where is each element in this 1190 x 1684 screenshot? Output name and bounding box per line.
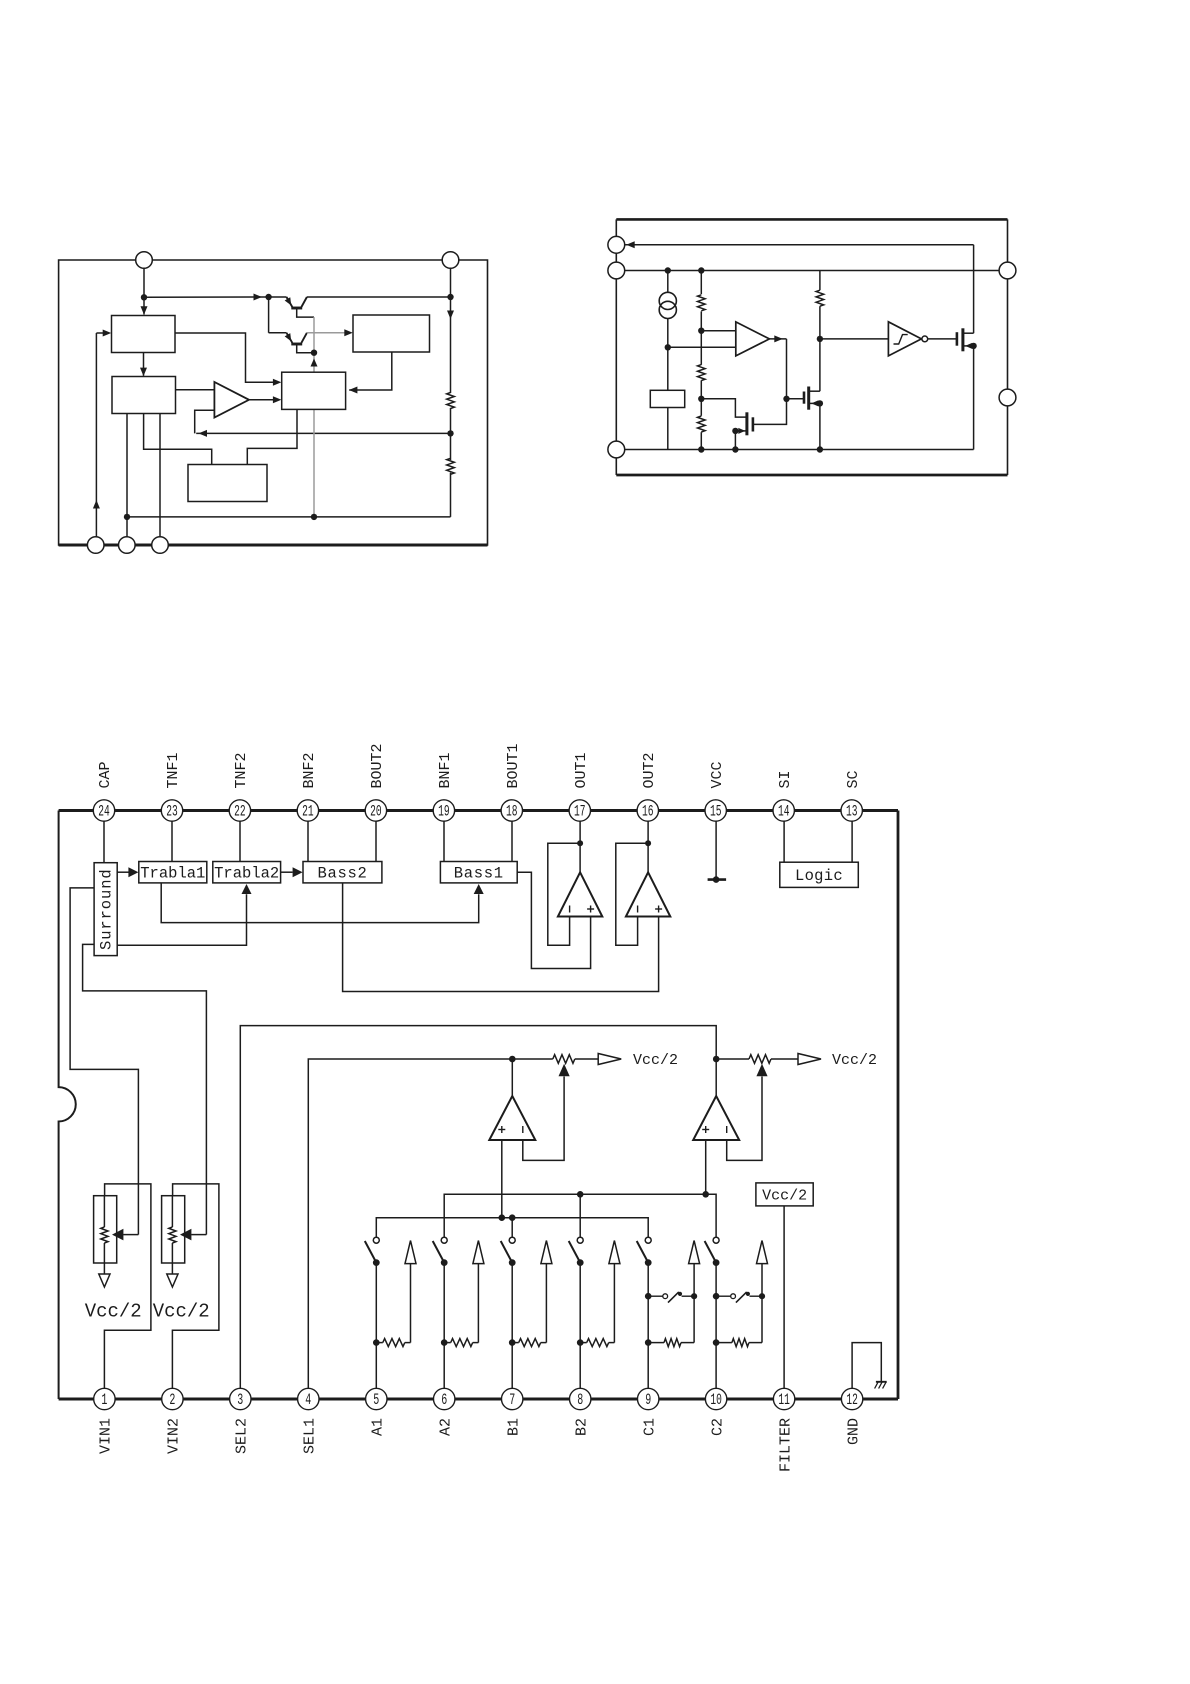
MOSFET M3 — [956, 332, 959, 346]
open arrow of cell — [757, 1241, 768, 1264]
pin K3 of diagram 2 — [608, 441, 625, 458]
svg-text:17: 17 — [574, 803, 586, 821]
pin P1 of diagram 1 — [136, 252, 153, 269]
Trabla1 block — [139, 862, 207, 883]
svg-text:Vcc/2: Vcc/2 — [85, 1301, 142, 1323]
node J1 junction — [665, 267, 671, 273]
node at sub-switch — [713, 1293, 720, 1300]
svg-text:Vcc/2: Vcc/2 — [832, 1052, 877, 1069]
wire Bass1 output to op-amp U4 non-inverting input — [517, 872, 590, 968]
wire block B2 leg2 jog to block B5 top — [144, 414, 212, 465]
svg-text:C1: C1 — [641, 1418, 658, 1436]
op-amp U7 — [693, 1096, 739, 1140]
wire VR2 wiper to Surround input 2 — [83, 944, 207, 1234]
series resistor of cell at pin x=376.3 — [376, 1342, 383, 1344]
svg-text:BOUT2: BOUT2 — [369, 743, 386, 788]
switch S6 blade — [705, 1241, 716, 1262]
chassis ground symbol — [876, 1381, 887, 1383]
wire pin 12 GND to chassis ground — [852, 1343, 881, 1391]
node N3 junction — [447, 294, 453, 300]
svg-text:B1: B1 — [505, 1418, 522, 1436]
svg-text:21: 21 — [302, 803, 314, 821]
svg-text:1: 1 — [101, 1391, 107, 1409]
Surround block — [94, 863, 117, 956]
wire switch S1 to pin — [375, 1263, 377, 1391]
feedback wire op-amp U5 — [616, 843, 648, 945]
wire Surround output to Trabla2 input arrow — [117, 894, 246, 945]
pin 14 circle — [773, 800, 794, 821]
pin 20 circle — [365, 800, 386, 821]
MOSFET M2 — [810, 390, 820, 392]
wire node J4 to op-amp U2 upper input — [701, 330, 736, 332]
node bus B at switch S3 — [509, 1214, 516, 1221]
wire block B1 output right and down into block B4 upper-left input — [175, 333, 278, 382]
switch S3 contact — [509, 1237, 515, 1243]
node at op-amp U6 output — [509, 1056, 516, 1063]
svg-text:A1: A1 — [370, 1418, 387, 1436]
node J4 junction at op-amp U2 non-inverting input — [698, 328, 704, 334]
open arrow of cell — [609, 1241, 620, 1264]
wire node down to op-amp U6 apex — [511, 1059, 513, 1096]
switch S2 contact — [441, 1237, 447, 1243]
pin 16 circle — [637, 800, 658, 821]
wire block B2 output to op-amp U1 input — [176, 389, 215, 391]
svg-text:24: 24 — [98, 803, 110, 821]
wire op-amp U2 output to node J7 — [769, 338, 786, 340]
op-amp U6 — [489, 1096, 535, 1140]
node J11 junction at MOSFET M2 source — [817, 400, 823, 406]
svg-text:9: 9 — [645, 1391, 651, 1409]
svg-text:BNF2: BNF2 — [301, 752, 318, 788]
feedback arrow op-amp U6 — [559, 1064, 570, 1077]
wire pin 18 to Bass1 — [511, 819, 513, 862]
pin 1 circle — [94, 1388, 115, 1409]
pin 15 circle — [705, 800, 726, 821]
wire R2 down to bottom rail — [450, 473, 452, 517]
svg-text:OUT2: OUT2 — [641, 752, 658, 788]
node N4 junction — [311, 350, 317, 356]
node on pin wire at resistor — [645, 1339, 652, 1346]
node J2 junction — [698, 267, 704, 273]
resistor R6 — [819, 271, 821, 291]
svg-text:4: 4 — [305, 1391, 311, 1409]
output resistor of op-amp U7 — [716, 1058, 749, 1060]
bypass wire pin 1 to VR1 top — [104, 1184, 150, 1391]
vertical wire to open arrow — [761, 1296, 763, 1342]
wire block B1 down to block B2 — [143, 353, 145, 376]
switch S1 pole node — [373, 1259, 380, 1266]
wire pin 21 to Bass2 — [307, 819, 309, 862]
pin 9 circle — [638, 1388, 659, 1409]
Vcc/2 reference arrow under VR1 — [99, 1274, 110, 1287]
wire block B4 bottom to block B5 top — [247, 409, 297, 464]
svg-text:Trabla1: Trabla1 — [140, 865, 205, 883]
node N6 junction of gray rail on bottom rail — [311, 514, 317, 520]
wire node N1 down into block B1 — [143, 297, 145, 314]
switch S6 pole node — [713, 1259, 720, 1266]
svg-text:18: 18 — [506, 803, 518, 821]
wire MOSFET M2 source to bottom rail node J12 — [819, 403, 821, 449]
switch S1 blade — [365, 1241, 376, 1262]
pin 12 circle — [841, 1388, 862, 1409]
bus A wire (A2-B2-C2) — [444, 1194, 716, 1237]
wire switch S3 to pin — [511, 1263, 513, 1391]
svg-text:SC: SC — [845, 770, 862, 788]
wire pin 3 SEL2 up and over to op-amp U7 output node — [240, 1026, 716, 1391]
pin 21 circle — [297, 800, 318, 821]
open arrow of cell — [541, 1241, 552, 1264]
block B3 — [353, 315, 430, 352]
svg-text:B2: B2 — [573, 1418, 590, 1436]
svg-text:FILTER: FILTER — [777, 1418, 794, 1472]
switch S4 blade — [569, 1241, 580, 1262]
node J3 junction at op-amp U2 inverting input — [665, 344, 671, 350]
vertical wire to open arrow — [693, 1296, 695, 1342]
wire Q2 base to node N4 — [297, 344, 314, 353]
svg-text:BNF1: BNF1 — [437, 752, 454, 788]
node at sub-switch output — [691, 1293, 697, 1299]
Bass2 block — [303, 862, 382, 883]
Vcc/2 reference arrow under VR2 — [167, 1274, 178, 1287]
wire op-amp U1 output into block B4 left input — [249, 399, 278, 401]
node on pin wire at resistor — [441, 1339, 448, 1346]
svg-text:20: 20 — [370, 803, 382, 821]
bypass wire pin 2 to VR2 top — [172, 1184, 219, 1391]
switch S1 contact — [373, 1237, 379, 1243]
switch S4 pole node — [577, 1259, 584, 1266]
stub bus A to switch S4 — [579, 1194, 581, 1237]
potentiometer VR1 resistor element — [103, 1196, 105, 1227]
series resistor of cell at pin x=716.1 — [716, 1342, 732, 1344]
pin 8 circle — [570, 1388, 591, 1409]
open arrow to Vcc/2 from op-amp U6 — [598, 1054, 621, 1065]
pin 22 circle — [229, 800, 250, 821]
feedback wire op-amp U7 — [727, 1077, 762, 1161]
wire switch S5 to pin — [647, 1263, 649, 1391]
wire block B6 to bottom rail — [667, 408, 669, 450]
pin 13 circle — [841, 800, 862, 821]
pin 7 circle — [502, 1388, 523, 1409]
VCC supply terminal symbol — [708, 878, 727, 881]
wire Bass2 output to op-amp U5 non-inverting input — [343, 883, 659, 992]
wire Q1 collector to node N3 — [307, 296, 451, 298]
op-amp U2 — [736, 322, 770, 356]
node N6b junction on bottom rail — [124, 514, 130, 520]
Vcc/2 block — [756, 1183, 813, 1206]
block B5 — [188, 465, 267, 502]
outer frame of block diagram 1 — [59, 260, 488, 545]
Schmitt trigger inverter U3 — [888, 322, 921, 356]
svg-text:A2: A2 — [437, 1418, 454, 1436]
switch S5 blade — [637, 1241, 648, 1262]
node on pin wire at resistor — [713, 1339, 720, 1346]
node J10 junction — [817, 336, 823, 342]
supply rail wire from pin K2 to pin K4 — [625, 270, 999, 272]
non-inverting input wire op-amp U7 to bus — [705, 1140, 707, 1194]
svg-text:6: 6 — [441, 1391, 447, 1409]
switch S2 blade — [433, 1241, 444, 1262]
svg-text:VIN1: VIN1 — [98, 1418, 115, 1454]
resistor R3 — [700, 271, 702, 295]
series resistor of cell at pin x=580.2 — [580, 1342, 587, 1344]
svg-text:BOUT1: BOUT1 — [505, 743, 522, 788]
current source I1 — [667, 271, 669, 293]
transistor Q2 (PNP) — [268, 297, 270, 333]
svg-text:TNF1: TNF1 — [165, 752, 182, 788]
wire pin 22 to Trabla2 — [239, 819, 241, 862]
node N2 junction at Q1 emitter — [265, 294, 271, 300]
switch S4 contact — [577, 1237, 583, 1243]
transistor Q1 (PNP) — [269, 296, 287, 298]
svg-text:22: 22 — [234, 803, 246, 821]
pin 23 circle — [161, 800, 182, 821]
wire from pin P2 down to node N3 — [450, 268, 452, 297]
wire pin 24 to Surround block — [103, 819, 105, 863]
outer frame of block diagram 2 — [616, 218, 1007, 221]
pin 18 circle — [501, 800, 522, 821]
gray rail node N4 down to block B4 top — [313, 353, 315, 373]
wire node N3 down to resistor R1 — [450, 297, 452, 393]
wire from pin P1 down to node N1 — [143, 268, 145, 297]
block B6 (reference) — [650, 390, 684, 407]
wire Trabla1 output to Bass1 input arrow — [161, 883, 479, 923]
wire node down to op-amp U7 apex — [715, 1059, 717, 1096]
node N1 junction — [141, 294, 147, 300]
open arrow of cell — [689, 1241, 700, 1264]
node J13 junction at MOSFET M3 source — [970, 343, 976, 349]
pin 19 circle — [433, 800, 454, 821]
node at op-amp U4 output — [577, 840, 583, 846]
node on pin wire at resistor — [577, 1339, 584, 1346]
svg-text:7: 7 — [509, 1391, 515, 1409]
svg-text:23: 23 — [166, 803, 178, 821]
svg-text:11: 11 — [778, 1391, 790, 1409]
pin 4 circle — [298, 1388, 319, 1409]
op-amp U1 — [214, 382, 249, 418]
resistor R4 — [700, 331, 702, 365]
svg-text:SEL1: SEL1 — [302, 1418, 319, 1454]
wire node N5 to resistor R2 — [450, 433, 452, 460]
wire switch S2 to pin — [443, 1263, 445, 1391]
wire pin 14 to Logic block — [783, 819, 785, 863]
pin K4 of diagram 2 — [999, 262, 1016, 279]
wire Q1 base elbow to gray rail — [297, 308, 314, 317]
wire from pin K1 to MOSFET M3 drain — [625, 244, 974, 246]
pin K1 of diagram 2 — [608, 236, 625, 253]
resistor R2 — [447, 458, 455, 474]
node on bus at op-amp U7 input — [702, 1191, 709, 1198]
wire switch S4 to pin — [579, 1263, 581, 1391]
node J7 junction — [783, 396, 789, 402]
block B1 — [112, 316, 176, 353]
potentiometer VR1 outline box — [94, 1196, 117, 1263]
open arrow of cell — [405, 1241, 416, 1264]
vertical wire to open arrow — [545, 1263, 547, 1342]
Bass1 block — [440, 862, 517, 883]
node at op-amp U7 output — [713, 1056, 720, 1063]
svg-text:13: 13 — [846, 803, 858, 821]
wiper arrow of VR1 — [112, 1229, 123, 1241]
pin 24 circle — [93, 800, 114, 821]
wire Vcc/2 block to pin 11 FILTER — [783, 1206, 785, 1391]
stub bus B to switch S3 — [511, 1218, 513, 1238]
wire pin 4 SEL1 up to op-amp U6 output node — [308, 1059, 512, 1391]
wire MOSFET M1 source to bottom rail — [734, 431, 736, 450]
svg-text:Bass1: Bass1 — [454, 865, 504, 883]
series resistor of cell at pin x=444.2 — [444, 1342, 451, 1344]
wire pin 13 to Logic block — [851, 819, 853, 863]
arrow Trabla2 to Bass2 — [281, 871, 293, 873]
pin 11 circle — [773, 1388, 794, 1409]
node bus A at switch S4 — [577, 1191, 584, 1198]
node on pin wire at resistor — [509, 1339, 516, 1346]
node J8 junction at MOSFET M1 source — [732, 428, 738, 434]
wire pin 20 to Bass2 — [375, 819, 377, 862]
feedback arrow op-amp U7 — [756, 1064, 767, 1077]
vertical wire to open arrow — [410, 1263, 412, 1342]
open arrow of cell — [473, 1241, 484, 1264]
pin 2 circle — [162, 1388, 183, 1409]
bus B wire (A1-B1-C1) — [376, 1218, 648, 1238]
pin 6 circle — [434, 1388, 455, 1409]
gray wire Q2 collector into block B3 — [307, 332, 350, 334]
svg-text:16: 16 — [642, 803, 654, 821]
svg-text:2: 2 — [169, 1391, 175, 1409]
switch S6 contact — [713, 1237, 719, 1243]
node J5 junction — [698, 396, 704, 402]
pin K2 of diagram 2 — [608, 262, 625, 279]
svg-text:Vcc/2: Vcc/2 — [633, 1052, 678, 1069]
wire pin 15 to VCC supply node — [715, 819, 717, 880]
node J12 junction on bottom rail — [817, 446, 823, 452]
svg-text:C2: C2 — [709, 1418, 726, 1436]
resistor R5 — [700, 399, 702, 416]
node N5 junction — [447, 430, 453, 436]
switch S3 blade — [501, 1241, 512, 1262]
pin P3 of diagram 1 — [87, 537, 104, 554]
wire Schmitt trigger U3 output to MOSFET M3 gate — [928, 338, 956, 340]
switch S5 contact — [645, 1237, 651, 1243]
vertical wire to open arrow — [477, 1263, 479, 1342]
wire pin 23 to Trabla1 — [171, 819, 173, 862]
resistor R1 — [447, 393, 455, 409]
node at sub-switch output — [759, 1293, 765, 1299]
svg-text:12: 12 — [846, 1391, 858, 1409]
block B4 — [282, 372, 346, 409]
Logic block — [780, 862, 859, 887]
svg-text:15: 15 — [710, 803, 722, 821]
wire block B3 output down and into block B4 right side — [349, 352, 392, 390]
feedback wire node N5 to op-amp U1 lower input — [196, 432, 450, 434]
wire node J5 to MOSFET M1 drain — [701, 399, 746, 417]
svg-text:CAP: CAP — [97, 761, 114, 788]
svg-text:8: 8 — [577, 1391, 583, 1409]
svg-text:14: 14 — [778, 803, 790, 821]
svg-text:Vcc/2: Vcc/2 — [153, 1301, 210, 1323]
svg-text:Vcc/2: Vcc/2 — [762, 1188, 807, 1205]
wire pin 17 to op-amp U4 output node — [579, 819, 581, 873]
wire node J7 to MOSFET M2 gate — [787, 398, 804, 400]
wire R1 to node N5 — [450, 408, 452, 433]
switch S3 pole node — [509, 1259, 516, 1266]
gray rail from Q1 base down to node N4 — [313, 317, 315, 353]
wiper arrow of VR2 — [180, 1229, 191, 1241]
node on bus at op-amp U6 input — [499, 1214, 506, 1221]
wire node J7 down to MOSFET M1 gate — [754, 399, 787, 425]
wire MOSFET M3 source down to bottom rail — [973, 346, 975, 450]
svg-text:SEL2: SEL2 — [234, 1418, 251, 1454]
sub-switch wire and contacts — [648, 1295, 662, 1297]
svg-text:3: 3 — [237, 1391, 243, 1409]
pin K5 of diagram 2 — [999, 389, 1016, 406]
switch S5 pole node — [645, 1259, 652, 1266]
sub-switch wire and contacts — [716, 1295, 730, 1297]
non-inverting input wire op-amp U6 to bus — [501, 1140, 503, 1218]
bottom rail wire — [127, 516, 451, 518]
pin P2 of diagram 1 — [442, 252, 459, 269]
svg-text:OUT1: OUT1 — [573, 752, 590, 788]
svg-text:5: 5 — [373, 1391, 379, 1409]
op-amp U5 — [626, 872, 670, 916]
wire block B2 leg3 down to pin P5 — [159, 414, 161, 538]
svg-text:Bass2: Bass2 — [317, 865, 367, 883]
IC outline — [59, 809, 898, 812]
pin P4 of diagram 1 — [119, 537, 136, 554]
wire block B2 leg1 down to pin P4 — [126, 414, 128, 538]
output resistor of op-amp U6 — [512, 1058, 553, 1060]
open arrow to Vcc/2 from op-amp U7 — [798, 1054, 821, 1065]
wire node J10 to Schmitt trigger U3 input — [820, 338, 889, 340]
wire switch S6 to pin — [715, 1263, 717, 1391]
pin P5 of diagram 1 — [152, 537, 169, 554]
series resistor of cell at pin x=648.2 — [648, 1342, 664, 1344]
pin 10 circle — [705, 1388, 726, 1409]
wire node J3 down to block B6 — [667, 347, 669, 390]
svg-text:Trabla2: Trabla2 — [214, 865, 279, 883]
Trabla2 block — [213, 862, 281, 883]
svg-text:Logic: Logic — [795, 867, 843, 885]
potentiometer VR2 outline box — [162, 1196, 185, 1263]
pin 5 circle — [366, 1388, 387, 1409]
bottom rail wire of diagram 2 — [625, 449, 974, 451]
wire left rail up into block B1 left input — [95, 333, 97, 537]
arrow Surround to Trabla1 — [117, 871, 129, 873]
switch S2 pole node — [441, 1259, 448, 1266]
vertical wire to open arrow — [613, 1263, 615, 1342]
svg-text:TNF2: TNF2 — [233, 752, 250, 788]
node J6 junction on bottom rail — [698, 446, 704, 452]
feedback wire op-amp U4 — [548, 843, 580, 945]
feedback wire op-amp U6 — [523, 1077, 564, 1161]
op-amp U4 — [558, 872, 602, 916]
wire node J3 to op-amp U2 lower input — [668, 346, 736, 348]
node at op-amp U5 output — [645, 840, 651, 846]
pin 17 circle — [569, 800, 590, 821]
svg-text:SI: SI — [777, 770, 794, 788]
svg-text:VIN2: VIN2 — [166, 1418, 183, 1454]
node on pin wire at resistor — [373, 1339, 380, 1346]
series resistor of cell at pin x=512.2 — [512, 1342, 519, 1344]
wire node J10 down to MOSFET M2 drain — [819, 339, 821, 391]
block B2 — [112, 377, 176, 414]
svg-text:19: 19 — [438, 803, 450, 821]
wire pin 19 to Bass1 — [443, 819, 445, 862]
svg-text:GND: GND — [845, 1418, 862, 1445]
pin 3 circle — [230, 1388, 251, 1409]
svg-text:VCC: VCC — [709, 761, 726, 788]
MOSFET M1 — [752, 417, 755, 431]
wire VR1 wiper to Surround input 1 — [70, 888, 138, 1235]
